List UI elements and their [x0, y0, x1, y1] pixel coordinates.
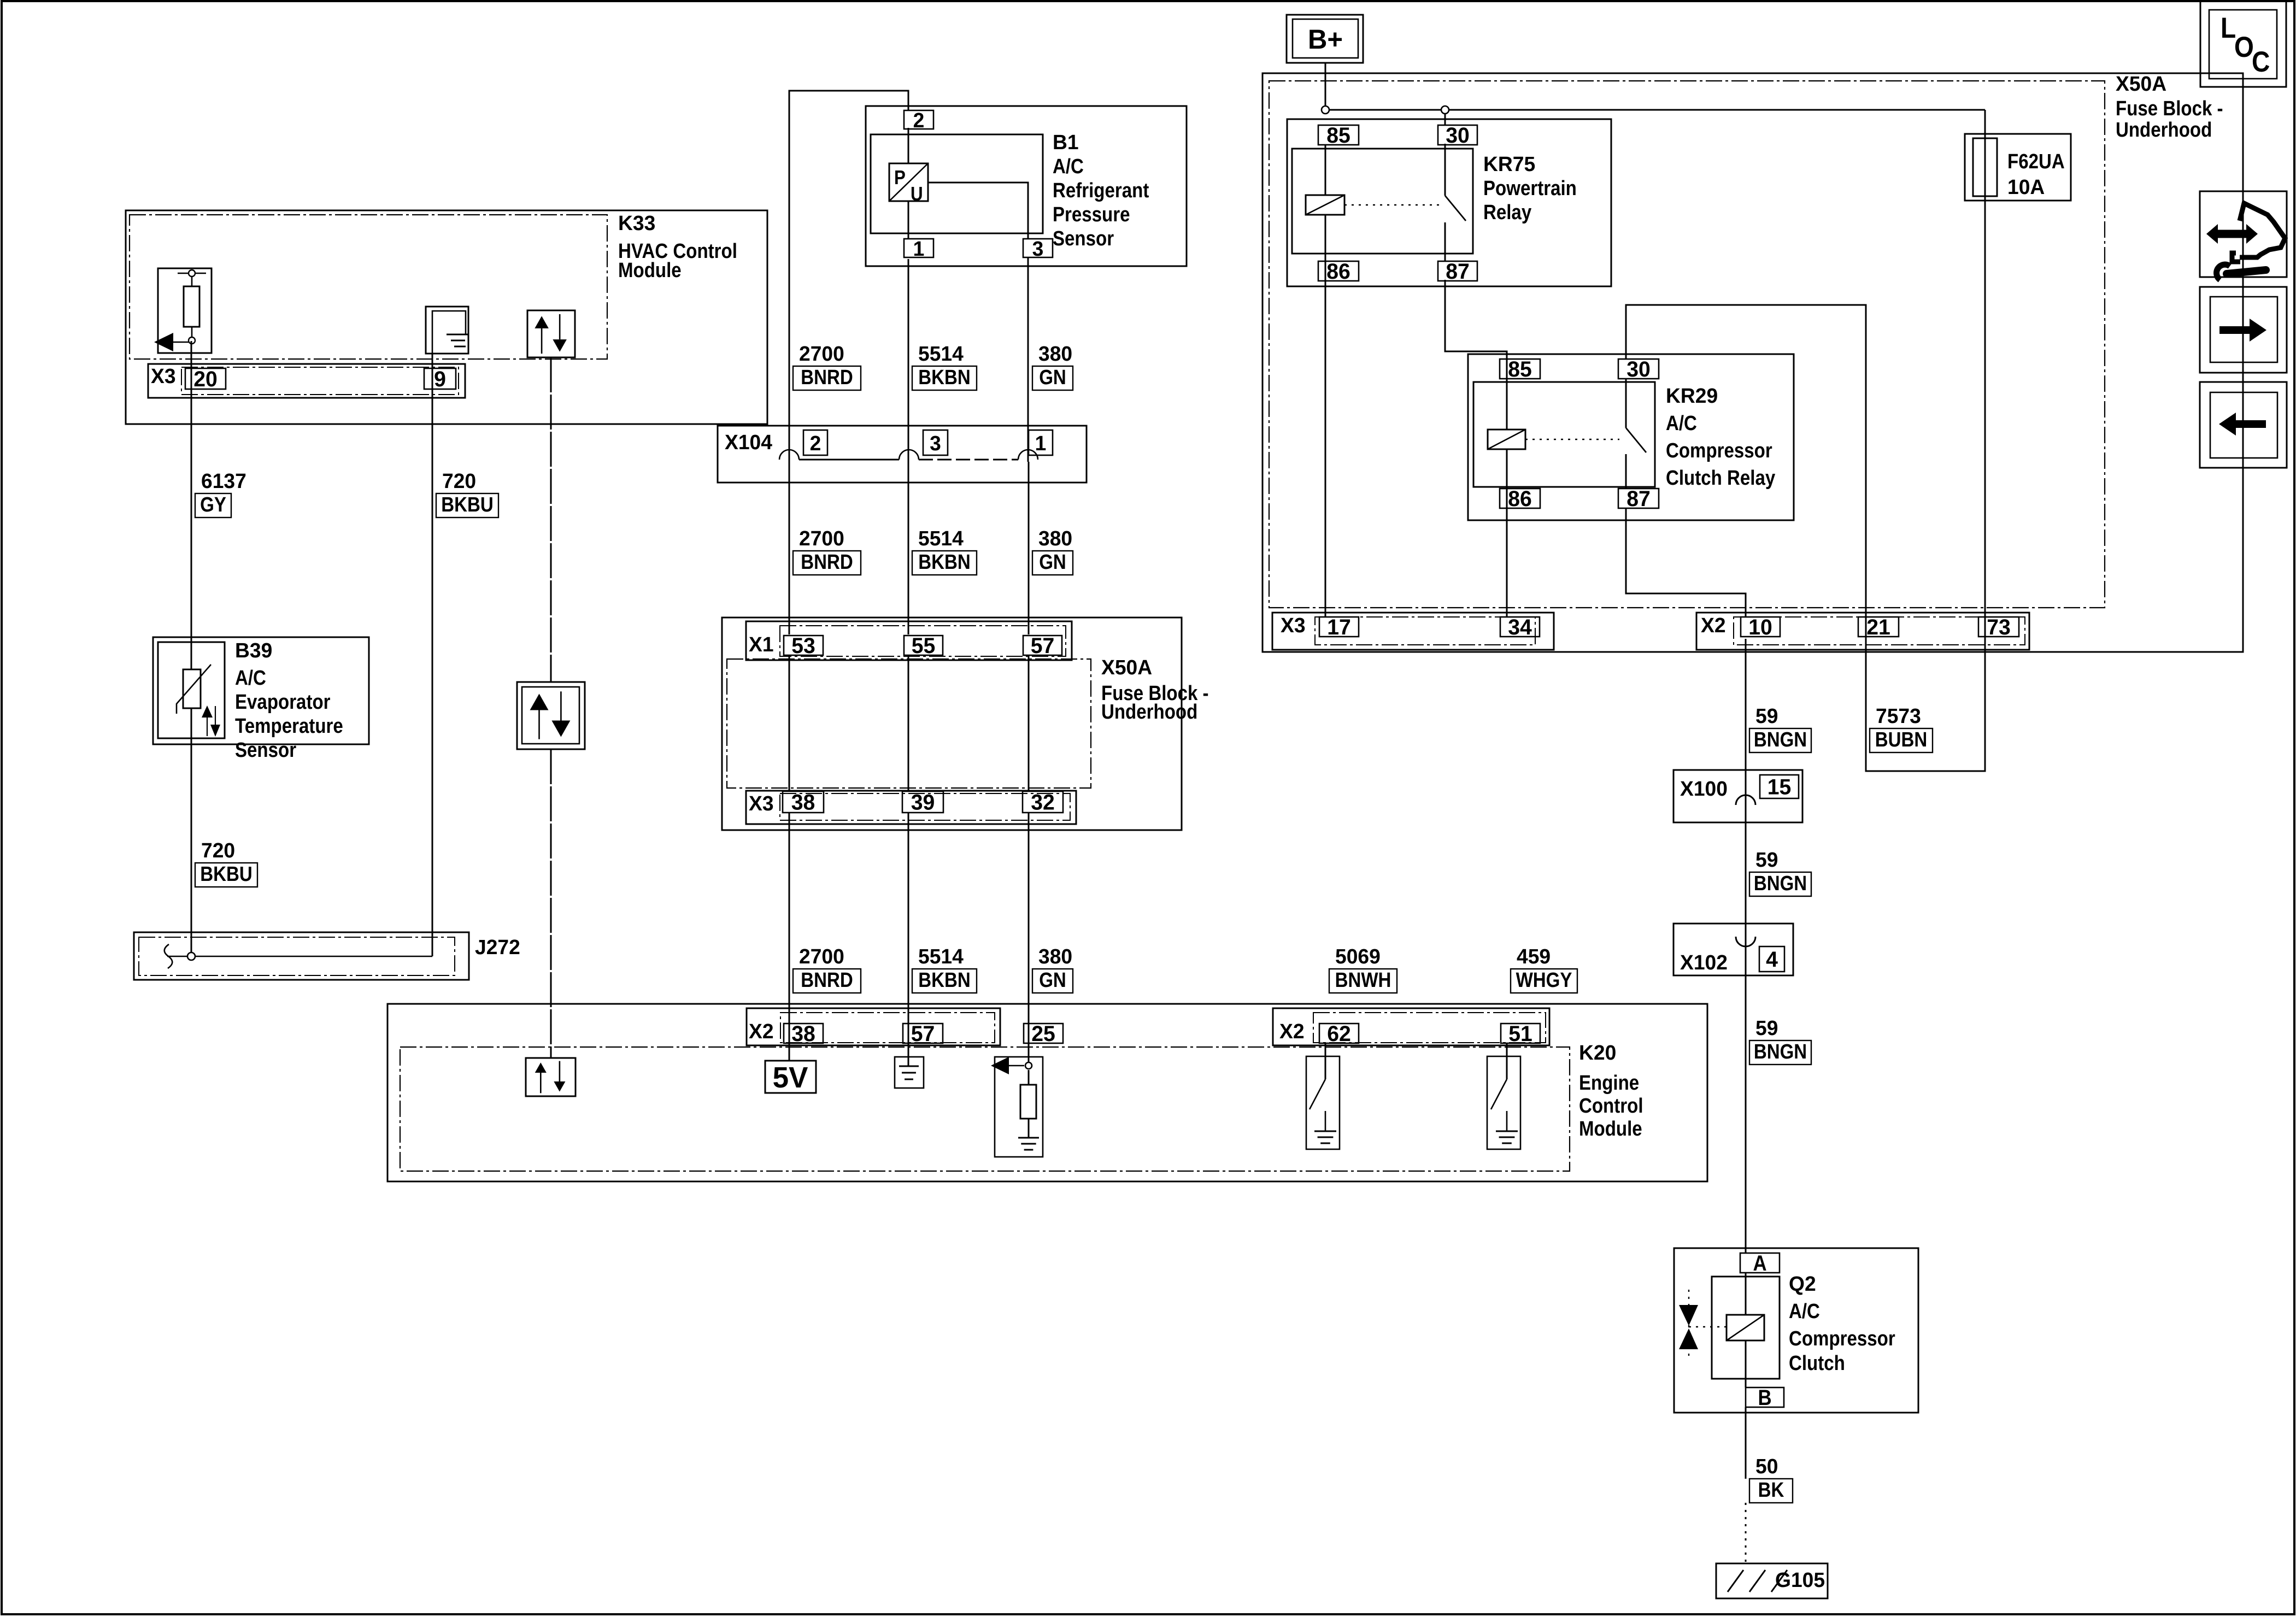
wire pin30 to contact — [1444, 144, 1446, 196]
module K20 dash-dot boundary — [400, 1047, 1570, 1171]
svg-text:BKBU: BKBU — [200, 862, 252, 886]
svg-text:59: 59 — [1755, 848, 1778, 871]
svg-text:720: 720 — [442, 469, 476, 492]
svg-text:10: 10 — [1748, 615, 1772, 639]
svg-text:GN: GN — [1039, 968, 1066, 992]
fuse block X3 pin 17 — [1319, 617, 1359, 637]
svg-text:38: 38 — [791, 1022, 815, 1046]
wire contact to pin87 KR29 — [1625, 454, 1627, 489]
X1 pin 55 — [904, 636, 943, 655]
svg-text:Evaporator: Evaporator — [235, 690, 331, 714]
svg-text:X1: X1 — [749, 633, 774, 656]
relay KR75 body — [1292, 149, 1473, 254]
svg-text:38: 38 — [791, 790, 815, 814]
J272 internal wire — [167, 956, 432, 957]
wire KR29 86 to X3-34 — [1506, 449, 1508, 617]
svg-text:53: 53 — [791, 634, 815, 658]
K20 X2 pin 62 — [1319, 1024, 1359, 1043]
relay KR29 contact blade — [1626, 428, 1646, 452]
inline connector X104 — [718, 426, 1087, 483]
K20 5V supply — [765, 1061, 816, 1093]
K33 evaporator sensor input symbol — [158, 268, 212, 353]
wire B1 pin2 loop to X104-2 — [789, 91, 908, 462]
relay KR29 coil-contact link — [1525, 439, 1619, 440]
fuse block right edge / LOC wire — [2242, 73, 2244, 652]
wire B39 to J272 — [191, 708, 192, 956]
svg-text:2700: 2700 — [799, 945, 844, 968]
K20 X2 pin 57 — [903, 1024, 943, 1043]
svg-text:Compressor: Compressor — [1789, 1327, 1895, 1350]
bar X3 of fuse block pass-through — [746, 791, 1076, 824]
svg-text:85: 85 — [1326, 124, 1350, 148]
svg-text:F62UA: F62UA — [2007, 150, 2065, 173]
wire transducer to pin3 — [928, 183, 1028, 239]
wire 55-39 through fuse block — [908, 655, 909, 791]
svg-text:59: 59 — [1755, 1016, 1778, 1039]
X3 pin 39 — [902, 791, 943, 813]
svg-text:X2: X2 — [1279, 1020, 1305, 1043]
svg-text:1: 1 — [1035, 432, 1047, 455]
relay KR29 pin 86 — [1500, 489, 1540, 508]
svg-text:86: 86 — [1508, 487, 1532, 511]
fuse block pass-through dash-dot — [727, 659, 1091, 788]
wire bus drop to KR75 30 — [1444, 110, 1446, 125]
K33 serial data symbol — [527, 310, 575, 357]
B1 pin 2 — [904, 110, 933, 129]
svg-text:21: 21 — [1866, 615, 1890, 639]
wire X2-10 down to Q2 A — [1745, 639, 1747, 1253]
svg-text:Module: Module — [618, 258, 682, 282]
svg-text:BUBN: BUBN — [1875, 728, 1927, 751]
svg-text:BKBN: BKBN — [918, 366, 970, 389]
X104 pin 1 — [1029, 430, 1053, 455]
svg-text:25: 25 — [1031, 1022, 1055, 1046]
svg-text:Module: Module — [1579, 1117, 1642, 1140]
svg-text:87: 87 — [1446, 260, 1470, 284]
svg-text:X50A: X50A — [2116, 72, 2166, 95]
icon connector-end-view — [2200, 191, 2287, 277]
svg-text:BKBN: BKBN — [918, 968, 970, 992]
svg-text:2700: 2700 — [799, 342, 844, 365]
relay KR75 coil-contact link — [1344, 204, 1441, 205]
wire K33 serial data down — [550, 357, 552, 682]
fuse block X2 pin 21 — [1858, 617, 1899, 637]
svg-text:GY: GY — [200, 493, 226, 516]
fuse block X2 pin 73 — [1978, 617, 2019, 637]
svg-text:380: 380 — [1038, 342, 1072, 365]
svg-text:X104: X104 — [725, 431, 772, 454]
svg-text:Clutch Relay: Clutch Relay — [1666, 466, 1775, 490]
svg-text:30: 30 — [1446, 124, 1470, 148]
X104 pin 3 — [923, 430, 948, 455]
svg-text:X3: X3 — [151, 364, 176, 387]
svg-text:A/C: A/C — [1789, 1300, 1820, 1323]
splice pack J272 box — [134, 932, 469, 980]
wire K33 pin20 to B39 — [191, 341, 192, 669]
wire KR75 87 to KR29 85 — [1445, 280, 1507, 359]
svg-text:BNRD: BNRD — [801, 550, 853, 574]
connector bar X2 of K20 (right) — [1273, 1008, 1549, 1045]
wire KR29 87 to X2-10 — [1626, 508, 1746, 617]
svg-text:BNGN: BNGN — [1754, 728, 1807, 751]
svg-text:459: 459 — [1517, 945, 1551, 968]
svg-text:Relay: Relay — [1483, 201, 1531, 224]
X104 terminal bumps — [779, 450, 799, 460]
svg-text:Temperature: Temperature — [235, 714, 343, 738]
wire X104-1 down — [1028, 462, 1030, 634]
module K20 outer box — [387, 1004, 1707, 1181]
svg-text:85: 85 — [1508, 357, 1532, 381]
K20 serial data symbol — [526, 1058, 576, 1096]
svg-text:BNGN: BNGN — [1754, 1040, 1807, 1063]
svg-text:32: 32 — [1031, 790, 1055, 814]
svg-text:C: C — [2252, 45, 2270, 78]
B1 body — [871, 134, 1043, 233]
svg-text:380: 380 — [1038, 527, 1072, 550]
svg-text:5514: 5514 — [918, 342, 964, 365]
svg-text:9: 9 — [434, 367, 446, 391]
wire B1 pin3 to X104-1 — [1027, 257, 1029, 462]
svg-text:30: 30 — [1626, 357, 1651, 381]
B1 pin 1 — [904, 239, 933, 257]
svg-text:73: 73 — [1987, 615, 2011, 639]
relay KR75 contact blade — [1445, 196, 1466, 221]
svg-text:WHGY: WHGY — [1516, 968, 1572, 992]
svg-text:Underhood: Underhood — [1101, 700, 1197, 724]
svg-text:GN: GN — [1039, 550, 1066, 574]
icon back arrow — [2200, 382, 2287, 468]
sensor B39 body — [158, 642, 225, 738]
wire B+ bus — [1325, 109, 1985, 111]
wire Q2 B to G105 — [1745, 1407, 1747, 1479]
wire fuse to KR29 30 via X2-21 — [1626, 110, 1985, 771]
A/C compressor clutch Q2 outer box — [1674, 1248, 1918, 1413]
K20 internal ground at 57 — [895, 1057, 924, 1088]
bar X1 of fuse block — [746, 621, 1072, 660]
svg-text:87: 87 — [1626, 487, 1651, 511]
svg-text:5069: 5069 — [1335, 945, 1381, 968]
svg-text:20: 20 — [193, 367, 218, 391]
svg-text:Engine: Engine — [1579, 1071, 1639, 1095]
J272 junction node — [187, 952, 195, 960]
relay KR29 outer box — [1468, 354, 1794, 520]
wire X3-32 to K20 — [1028, 813, 1030, 1066]
svg-text:51: 51 — [1508, 1022, 1532, 1046]
fuse F62UA box — [1965, 134, 2071, 201]
svg-text:X2: X2 — [1701, 614, 1726, 637]
wire transducer to pin1 — [908, 201, 909, 239]
Q2 clutch symbol — [1679, 1305, 1698, 1326]
svg-text:57: 57 — [1031, 634, 1055, 658]
relay KR75 pin 86 — [1318, 261, 1359, 281]
connector X100 pin 15 — [1760, 775, 1799, 798]
X104 link line — [799, 459, 899, 461]
svg-text:3: 3 — [1032, 237, 1044, 260]
svg-text:4: 4 — [1766, 948, 1778, 972]
svg-text:P: P — [894, 167, 906, 189]
fuse F62UA element — [1973, 138, 1997, 196]
sensor B1 outer box — [866, 106, 1187, 266]
svg-text:6137: 6137 — [201, 469, 246, 492]
svg-text:Compressor: Compressor — [1666, 439, 1772, 462]
svg-text:Refrigerant: Refrigerant — [1053, 179, 1149, 202]
K20 X2 pin 51 — [1501, 1024, 1540, 1043]
svg-text:Fuse Block -: Fuse Block - — [2116, 97, 2223, 120]
ground G105 — [1716, 1563, 1828, 1598]
svg-text:2700: 2700 — [799, 527, 844, 550]
relay KR75 pin 85 — [1318, 125, 1359, 145]
K20 switch to ground at 62 — [1306, 1056, 1340, 1149]
connector bar X3 of K33 — [148, 364, 465, 398]
svg-text:A/C: A/C — [1053, 155, 1084, 178]
svg-text:59: 59 — [1755, 704, 1778, 727]
svg-text:K20: K20 — [1579, 1041, 1616, 1064]
relay KR29 pin 30 — [1618, 359, 1659, 379]
locator LOC box — [2200, 1, 2286, 87]
fuse block X2 pin 10 — [1741, 617, 1780, 637]
K20 switch to ground at 51 — [1487, 1056, 1520, 1149]
svg-text:BK: BK — [1758, 1478, 1784, 1502]
svg-text:5514: 5514 — [918, 527, 964, 550]
svg-text:15: 15 — [1767, 775, 1792, 799]
svg-text:17: 17 — [1327, 615, 1351, 639]
connector bar X2 of fuse block — [1696, 613, 2029, 650]
svg-text:3: 3 — [930, 432, 941, 455]
X104 pin 2 — [803, 430, 827, 455]
wire X3-39 to K20 — [908, 813, 909, 1066]
connector bar X2 of K20 (left) — [747, 1008, 1000, 1045]
svg-text:Powertrain: Powertrain — [1483, 177, 1577, 200]
svg-text:Sensor: Sensor — [1053, 227, 1114, 250]
wire 53-38 through fuse block — [789, 655, 790, 791]
wire K33 pin9 down — [432, 354, 433, 956]
wire 57-32 through fuse block — [1028, 655, 1030, 791]
relay KR29 pin 85 — [1500, 359, 1540, 379]
serial data connector symbol — [517, 682, 585, 749]
wire KR75 85/86 vertical — [1325, 215, 1326, 617]
relay KR29 pin 87 — [1618, 489, 1659, 508]
wire serial data to K20 — [550, 749, 552, 1058]
svg-text:5V: 5V — [773, 1062, 808, 1095]
svg-text:X102: X102 — [1680, 951, 1728, 974]
svg-text:Q2: Q2 — [1789, 1272, 1816, 1295]
wire B+ to bus — [1325, 63, 1326, 110]
icon forward arrow — [2200, 287, 2287, 373]
Q2 body — [1712, 1277, 1780, 1379]
inline connector X102 — [1673, 924, 1793, 975]
X1 pin 53 — [784, 636, 823, 655]
svg-text:BNWH: BNWH — [1335, 968, 1391, 992]
svg-text:5514: 5514 — [918, 945, 964, 968]
svg-text:2: 2 — [913, 109, 925, 132]
fuse block X50A pass-through outer box — [722, 618, 1182, 830]
svg-text:Control: Control — [1579, 1094, 1643, 1118]
K33 internal ground symbol — [426, 307, 468, 354]
svg-text:BKBU: BKBU — [441, 493, 493, 516]
sensor B39 outer box — [153, 637, 369, 744]
battery feed B+ — [1287, 15, 1363, 63]
wire pin A to coil — [1745, 1273, 1747, 1315]
node tap at KR75 85 — [1322, 106, 1329, 114]
Q2 pin A — [1740, 1253, 1780, 1273]
connector X102 pin 4 — [1759, 946, 1784, 972]
wire KR29 pin85 to coil — [1506, 359, 1508, 430]
svg-text:K33: K33 — [618, 211, 655, 234]
svg-text:1: 1 — [913, 237, 925, 260]
fuse block X50A dash-dot boundary — [1269, 81, 2105, 608]
svg-text:62: 62 — [1327, 1022, 1351, 1046]
module K33 dash-dot boundary — [130, 215, 607, 359]
svg-text:2: 2 — [810, 432, 821, 455]
svg-text:380: 380 — [1038, 945, 1072, 968]
K33 X3 pin 20 — [185, 368, 226, 389]
svg-text:BNRD: BNRD — [801, 366, 853, 389]
svg-text:KR75: KR75 — [1483, 152, 1535, 175]
B1 pin 3 — [1023, 239, 1053, 257]
wire KR29 pin30 to contact — [1625, 379, 1627, 428]
Q2 pin B — [1746, 1387, 1784, 1407]
B1 P/U transducer — [889, 163, 928, 201]
svg-text:O: O — [2234, 31, 2254, 63]
inline connector X100 — [1673, 770, 1802, 822]
node tap at KR75 30 — [1441, 106, 1449, 114]
relay KR29 body — [1473, 382, 1655, 487]
wire coil to pin B — [1745, 1340, 1747, 1387]
svg-text:34: 34 — [1508, 615, 1532, 639]
svg-text:Pressure: Pressure — [1053, 203, 1130, 226]
wire pin85 to coil — [1325, 145, 1326, 195]
module K33 outer box — [126, 210, 767, 424]
X3 pin 32 — [1023, 791, 1063, 813]
K33 X3 pin 9 — [424, 368, 456, 389]
svg-text:B39: B39 — [235, 639, 272, 662]
svg-text:86: 86 — [1326, 260, 1350, 284]
X3 pin 38 — [783, 791, 824, 813]
K20 X2 pin 25 — [1024, 1024, 1063, 1043]
relay KR75 coil — [1306, 195, 1344, 215]
svg-text:GN: GN — [1039, 366, 1066, 389]
svg-text:Clutch: Clutch — [1789, 1351, 1845, 1375]
svg-text:X50A: X50A — [1101, 656, 1152, 679]
svg-text:X100: X100 — [1680, 777, 1728, 800]
wire B1 pin2 to transducer — [908, 128, 909, 163]
svg-text:A/C: A/C — [1666, 411, 1697, 435]
svg-text:57: 57 — [911, 1022, 935, 1046]
svg-text:A/C: A/C — [235, 666, 266, 690]
connector bar X3 of fuse block — [1272, 613, 1554, 650]
svg-text:X2: X2 — [749, 1020, 774, 1043]
wire X104-2 down — [789, 462, 790, 634]
svg-text:A: A — [1753, 1251, 1766, 1275]
svg-text:55: 55 — [912, 634, 936, 658]
wire X104-3 down — [908, 462, 909, 634]
K20 X2 pin 38 — [784, 1024, 823, 1043]
wire X3-38 to K20 — [789, 813, 790, 1061]
Q2 clutch coil — [1727, 1315, 1764, 1340]
wire contact to pin87 — [1444, 222, 1446, 261]
B39 variable arrows — [202, 705, 213, 718]
relay KR75 outer box — [1287, 119, 1611, 286]
svg-text:B1: B1 — [1053, 131, 1079, 154]
svg-text:U: U — [911, 183, 923, 205]
svg-text:720: 720 — [201, 839, 235, 862]
fuse block X3 pin 34 — [1500, 617, 1540, 637]
svg-text:39: 39 — [911, 790, 935, 814]
svg-text:50: 50 — [1755, 1455, 1778, 1478]
relay KR75 pin 30 — [1438, 125, 1477, 145]
X1 pin 57 — [1023, 636, 1062, 655]
svg-text:BKBN: BKBN — [918, 550, 970, 574]
relay KR75 pin 87 — [1438, 261, 1477, 281]
relay KR29 coil — [1488, 430, 1525, 449]
svg-text:BNRD: BNRD — [801, 968, 853, 992]
svg-text:10A: 10A — [2007, 175, 2045, 198]
wire dotted to ground — [1745, 1503, 1747, 1563]
svg-text:J272: J272 — [475, 936, 520, 959]
wire B1 pin1 to X104-3 — [908, 259, 909, 462]
svg-text:Underhood: Underhood — [2116, 118, 2212, 142]
svg-text:Sensor: Sensor — [235, 738, 296, 762]
B39 thermistor — [183, 669, 201, 708]
svg-text:7573: 7573 — [1876, 704, 1921, 727]
svg-text:X3: X3 — [1281, 614, 1306, 637]
svg-text:KR29: KR29 — [1666, 384, 1718, 407]
svg-text:G105: G105 — [1775, 1568, 1825, 1591]
K20 signal sense at 25 — [995, 1057, 1043, 1157]
svg-text:L: L — [2221, 11, 2236, 44]
svg-text:BNGN: BNGN — [1754, 872, 1807, 895]
svg-text:B+: B+ — [1308, 25, 1343, 55]
svg-text:B: B — [1758, 1385, 1771, 1410]
fuse block X50A outer box — [1262, 73, 2243, 652]
svg-text:X3: X3 — [749, 792, 774, 815]
